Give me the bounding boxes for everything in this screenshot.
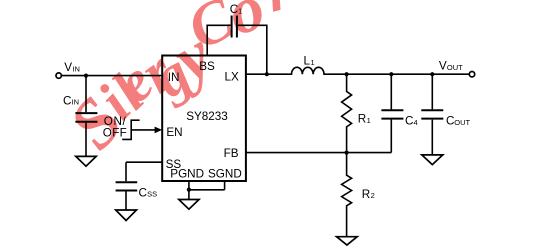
svg-text:V: V <box>64 61 72 74</box>
svg-text:C: C <box>230 3 238 16</box>
svg-text:EN: EN <box>166 126 182 139</box>
svg-text:C: C <box>405 115 413 128</box>
svg-text:SS: SS <box>147 190 157 199</box>
svg-text:OFF: OFF <box>103 127 127 140</box>
svg-text:LX: LX <box>225 71 240 84</box>
svg-text:4: 4 <box>414 118 418 127</box>
svg-text:BS: BS <box>199 60 215 73</box>
svg-text:C: C <box>63 94 71 107</box>
svg-text:1: 1 <box>238 6 242 15</box>
svg-text:C: C <box>139 186 147 199</box>
svg-text:L: L <box>304 55 311 68</box>
svg-text:C: C <box>446 115 454 128</box>
svg-text:IN: IN <box>168 71 180 84</box>
svg-text:1: 1 <box>367 116 371 125</box>
svg-text:FB: FB <box>224 147 239 160</box>
svg-text:R: R <box>358 113 366 126</box>
svg-text:IN: IN <box>72 65 80 74</box>
svg-text:SY8233: SY8233 <box>186 110 228 123</box>
svg-text:PGND: PGND <box>170 168 204 181</box>
svg-text:2: 2 <box>371 191 375 200</box>
svg-text:IN: IN <box>72 98 80 107</box>
svg-text:V: V <box>439 60 447 73</box>
svg-text:SGND: SGND <box>208 168 242 181</box>
svg-text:R: R <box>362 188 370 201</box>
svg-text:OUT: OUT <box>447 63 463 72</box>
svg-text:1: 1 <box>311 58 315 67</box>
svg-text:OUT: OUT <box>454 118 470 127</box>
